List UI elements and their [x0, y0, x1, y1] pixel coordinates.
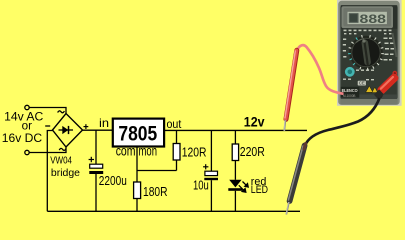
label common — [116, 144, 157, 159]
svg-text:LED: LED — [251, 184, 268, 196]
wire 7805 common down — [136, 147, 138, 183]
bridge rectifier VW04 diamond — [53, 114, 83, 148]
svg-text:M-1000B: M-1000B — [343, 94, 356, 98]
wire 0v bottom rail — [47, 210, 300, 212]
wire bridge plus to 7805 in — [83, 129, 113, 131]
capacitor C2 10u plus mark — [203, 164, 208, 169]
capacitor 2200u plates — [89, 164, 103, 174]
svg-text:2200u: 2200u — [99, 174, 127, 188]
black test lead cable — [305, 98, 380, 146]
multimeter body holster — [338, 1, 400, 105]
label 180R — [143, 184, 168, 199]
LED emission arrows — [239, 182, 248, 193]
LED D1 red — [228, 180, 242, 212]
wire AC bottom — [29, 147, 66, 153]
multimeter jack holes — [377, 71, 397, 98]
label 14v AC / or / 16v DC — [2, 110, 44, 145]
resistor R2 180R wire bottom — [136, 199, 138, 212]
multimeter dial recess — [349, 36, 383, 70]
label VW04 bridge — [50, 155, 80, 178]
multimeter dial tick ring — [349, 35, 384, 70]
svg-text:VW04: VW04 — [50, 155, 72, 166]
multimeter rotary dial knob — [352, 38, 380, 66]
black probe handle — [288, 144, 305, 202]
svg-text:180R: 180R — [143, 184, 168, 199]
node AC input terminal bottom — [25, 150, 29, 154]
svg-text:CE: CE — [359, 81, 365, 86]
capacitor 2200u plus mark — [89, 157, 94, 162]
capacitor C2 10u wires — [210, 130, 212, 211]
label plus at bridge right — [84, 124, 89, 129]
resistor R1 120R body — [173, 144, 180, 161]
label minus at bridge left — [45, 125, 50, 127]
wire common node horizontal — [137, 170, 177, 172]
svg-text:in: in — [99, 116, 109, 130]
red probe handle — [285, 50, 297, 119]
resistor R1 120R wires — [176, 130, 178, 170]
label 120R — [182, 144, 207, 159]
label ~ top AC corner — [58, 111, 65, 113]
svg-text:120R: 120R — [182, 144, 207, 159]
svg-text:7805: 7805 — [118, 121, 157, 145]
svg-text:mon: mon — [139, 144, 158, 159]
multimeter photo background — [337, 0, 402, 106]
svg-text:12v: 12v — [244, 115, 265, 130]
multimeter panel markings rows — [343, 30, 394, 81]
svg-text:ELENCO: ELENCO — [342, 88, 358, 93]
multimeter dial cyan ticks — [348, 38, 357, 65]
label red LED — [251, 176, 268, 196]
label ~ bottom AC corner — [59, 148, 66, 150]
regulator U1 7805 box — [113, 119, 164, 147]
multimeter LCD — [341, 5, 397, 29]
resistor R2 180R body — [134, 182, 141, 199]
node AC input terminal top — [25, 105, 29, 109]
capacitor C2 10u plates — [204, 171, 218, 180]
svg-text:out: out — [167, 117, 182, 131]
multimeter CE mark — [358, 81, 366, 86]
capacitor 2200u branch wire top — [95, 130, 97, 164]
label 12v — [244, 115, 265, 130]
multimeter red banana plug — [374, 72, 400, 99]
svg-text:bridge: bridge — [51, 168, 80, 179]
svg-text:888: 888 — [360, 12, 387, 26]
wire 7805 out to 12v rail — [164, 129, 307, 131]
multimeter hFE badge — [345, 67, 355, 77]
label 10u — [193, 178, 209, 192]
label out — [167, 117, 182, 131]
red probe tip touching 12v rail — [284, 120, 285, 131]
multimeter brand ELENCO — [341, 87, 360, 98]
label 220R — [240, 144, 265, 159]
black probe tip touching 0v rail — [286, 202, 289, 215]
svg-text:com: com — [116, 144, 136, 159]
multimeter face sheen — [393, 33, 397, 57]
label 2200u — [99, 174, 127, 188]
multimeter warning triangles — [366, 86, 378, 93]
capacitor 2200u wire bottom — [95, 174, 97, 211]
svg-text:16v DC: 16v DC — [2, 131, 42, 145]
wire AC top — [29, 108, 66, 114]
wire bridge minus to 0v rail — [47, 131, 52, 212]
red test lead cable — [297, 45, 344, 94]
svg-text:220R: 220R — [240, 144, 265, 159]
diode inside bridge — [59, 126, 74, 134]
label in — [99, 116, 109, 130]
svg-text:10u: 10u — [193, 178, 209, 192]
resistor R3 220R body — [232, 144, 238, 161]
resistor R3 220R wires — [234, 130, 236, 179]
